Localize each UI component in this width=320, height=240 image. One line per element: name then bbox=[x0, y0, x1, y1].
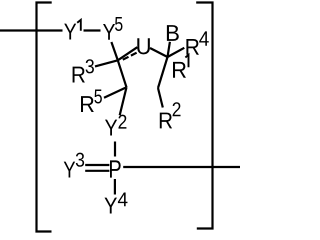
Markush chemical structure with polymer repeat-unit brackets bbox=[0, 0, 240, 234]
superscript 2 of R2 bbox=[173, 102, 181, 116]
left square bracket bbox=[37, 3, 52, 232]
superscript 5 of R5 bbox=[94, 90, 101, 104]
bond Y5-C1 bbox=[111, 42, 117, 60]
label Y1 letter Y bbox=[64, 24, 76, 40]
label R1 letter R bbox=[173, 62, 186, 78]
superscript 3 of R3 bbox=[86, 59, 94, 73]
superscript 1 of Y1 (drawn) bbox=[77, 20, 81, 31]
bond Y2-P bbox=[114, 142, 116, 157]
bond C2-Y2 bbox=[120, 87, 127, 115]
label Y3 letter Y bbox=[64, 162, 75, 178]
label P (phosphorus atom) bbox=[110, 160, 121, 177]
label R2 letter R bbox=[160, 113, 172, 129]
label R5 letter R bbox=[81, 96, 94, 112]
label R3 letter R bbox=[73, 67, 85, 83]
label Y5 letter Y bbox=[103, 24, 115, 40]
superscript 1 of R1 (drawn) bbox=[185, 55, 188, 68]
bond P-Y4 bbox=[114, 179, 116, 195]
label B (atom B) bbox=[167, 25, 179, 41]
superscript 3 of Y3 bbox=[76, 153, 84, 167]
bond R5-C2 bbox=[104, 87, 127, 98]
superscript 4 of Y4 bbox=[118, 192, 128, 206]
bond C1=U dashed second line bbox=[123, 52, 138, 59]
bond C1=U solid line bbox=[118, 47, 138, 60]
bond C1-C2 bbox=[118, 60, 127, 87]
label R4 letter R bbox=[186, 39, 199, 55]
superscript 5 of Y5 bbox=[115, 17, 122, 31]
wire right connection bond P to right bracket edge bbox=[123, 166, 240, 168]
bond Y1-Y5 bbox=[84, 29, 101, 31]
label Y2 letter Y bbox=[105, 120, 117, 136]
bond Y3=P lower line bbox=[85, 170, 109, 172]
superscript 2 of Y2 bbox=[118, 115, 126, 129]
superscript 4 of R4 bbox=[199, 31, 209, 45]
bond C3-B bbox=[168, 42, 170, 57]
label Y4 letter Y bbox=[104, 198, 116, 214]
bond C4-R2 bbox=[158, 88, 163, 108]
bond C3-C4 bbox=[158, 57, 168, 88]
bond R3-C1 bbox=[95, 60, 118, 66]
bond Y3=P upper line bbox=[85, 164, 109, 166]
right square bracket bbox=[196, 3, 212, 229]
bond U-C3 bbox=[150, 48, 168, 57]
bond C3-R4 bbox=[168, 48, 185, 57]
label U (atom U) bbox=[137, 38, 150, 54]
wire left connection bond through left bracket bbox=[0, 29, 63, 31]
